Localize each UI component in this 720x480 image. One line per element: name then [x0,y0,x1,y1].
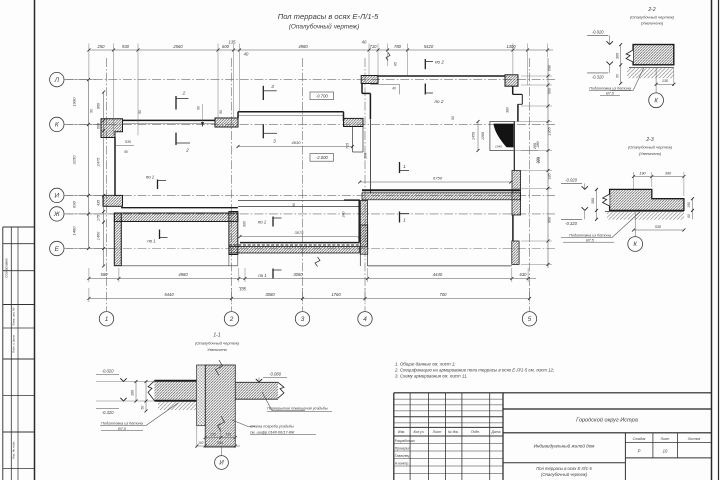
svg-text:600: 600 [97,122,101,129]
wall pier on axis K hatched [215,118,238,127]
elevation -0.320 [587,72,608,74]
svg-text:190: 190 [639,171,646,175]
svg-text:300: 300 [591,198,595,204]
sheet frame right border [711,0,713,480]
svg-text:360: 360 [665,171,672,175]
svg-text:2: 2 [185,148,189,154]
svg-text:Н.контр.: Н.контр. [395,461,409,465]
svg-text:1280: 1280 [481,132,485,140]
sunken room inner edge bottom [240,242,359,244]
svg-text:60: 60 [141,406,145,410]
svg-text:Городской округ Истра: Городской округ Истра [576,417,638,424]
svg-text:4630: 4630 [292,140,302,145]
svg-text:В7,5: В7,5 [586,238,595,242]
svg-text:К: К [654,98,658,104]
svg-text:Разработал: Разработал [395,439,415,443]
svg-text:280: 280 [533,143,537,150]
boxed elevation -0.700 [310,92,334,100]
svg-text:(Опалубочный чертеж): (Опалубочный чертеж) [541,472,588,477]
svg-text:5: 5 [528,316,532,323]
flag po1 left lower [159,230,161,240]
svg-text:Перекрытие помещения усадьбы: Перекрытие помещения усадьбы [267,406,328,410]
lower-left room left wall band hatched [114,213,121,266]
small step dims K/1 [115,145,134,147]
leader podgotovka 2-2 [610,68,644,91]
svg-text:340: 340 [217,441,223,445]
svg-text:100: 100 [198,441,204,445]
svg-text:Подп.: Подп. [471,430,480,434]
svg-text:4980: 4980 [298,44,308,49]
svg-text:по 2: по 2 [435,99,444,104]
svg-text:240: 240 [342,212,346,219]
flag po2 lower [424,84,426,95]
svg-text:3080: 3080 [265,292,275,297]
right room: top wall on axis L [378,75,505,77]
svg-text:600: 600 [222,44,230,49]
svg-text:3075: 3075 [295,230,305,235]
raised wall edge above axis K [238,111,344,113]
svg-text:3: 3 [271,84,274,90]
leader perekrytie [262,392,305,411]
bottom dim chain 1 [89,278,536,280]
svg-text:780: 780 [394,44,402,49]
sunken room inner edge right [358,200,360,243]
svg-text:630: 630 [520,272,528,277]
axis circle Ж [50,207,64,221]
svg-text:-0.320: -0.320 [592,75,605,80]
lower-left room top wall band hatched (axis Zh) [114,213,237,222]
wall pier axis I/1 hatched [103,195,123,206]
interior dim 4630 [238,146,353,148]
axis circle Л [50,72,64,86]
grid axis lines vertical [106,58,108,311]
grid axis lines horizontal [65,79,556,81]
dim 130 [656,83,674,85]
svg-text:Стена погреба усадьбы: Стена погреба усадьбы [250,425,294,429]
vert dim 2-2 [620,45,622,84]
svg-text:90: 90 [90,109,94,113]
svg-text:Кол.уч.: Кол.уч. [413,430,424,434]
axis circle 4 [358,312,372,326]
svg-text:по 1: по 1 [147,239,156,244]
leader stena pogreba [232,420,255,427]
svg-text:175: 175 [97,214,101,221]
section flag 2 lower [175,133,177,145]
svg-text:580: 580 [101,272,109,277]
svg-text:Стадия: Стадия [633,437,646,441]
axis circle И [50,188,64,202]
svg-text:60: 60 [687,214,691,218]
svg-text:Инв. № подл.: Инв. № подл. [12,441,16,459]
top dim chain [89,49,553,51]
elevation -0.080 1-1 [263,377,287,379]
svg-text:И: И [55,193,60,200]
svg-text:Листов: Листов [687,437,701,441]
svg-text:(Опалубочный чертеж): (Опалубочный чертеж) [289,23,359,31]
svg-text:2. Спецификацию на армировани: 2. Спецификацию на армирование пола терр… [394,368,555,373]
svg-text:250: 250 [97,44,106,49]
section flag 2 upper [175,96,177,110]
opening with monolith section mark [490,122,514,151]
svg-text:-0.080: -0.080 [269,371,282,376]
left wall on axis 1 [114,138,116,196]
svg-text:2-2: 2-2 [647,7,655,13]
svg-text:600: 600 [548,87,552,94]
right wall bottom pier hatched [512,241,519,264]
svg-text:690: 690 [548,64,552,71]
svg-text:по 1: по 1 [146,175,155,180]
svg-text:220: 220 [537,157,541,164]
svg-text:40: 40 [362,40,367,45]
svg-text:380: 380 [364,153,368,159]
elevation -0.320 1-1 [96,408,119,410]
svg-text:85: 85 [394,62,398,66]
bottom dim chain 2 [89,298,530,300]
wall band on axis 4 hatched [360,201,367,247]
bottom thin edge of right room [368,265,512,267]
right room left wall with notch [361,83,363,94]
svg-text:В7,5: В7,5 [606,91,615,95]
break zigzag 2-3 [603,194,610,206]
left slab thick borders hatched [155,381,197,401]
vert dims 2-3 left [596,189,598,219]
svg-text:Лист: Лист [660,437,670,441]
svg-text:135: 135 [210,432,216,436]
svg-text:3150: 3150 [72,155,77,165]
svg-text:-0.020: -0.020 [565,177,578,182]
svg-text:90: 90 [138,110,142,114]
svg-text:Пол террасы в осях Е-Л/1-5: Пол террасы в осях Е-Л/1-5 [278,12,379,21]
bottom dims 1-1 [205,437,235,439]
axis circle 3 [295,312,309,326]
svg-text:960: 960 [548,216,552,223]
svg-text:300: 300 [131,390,135,396]
svg-text:по 2: по 2 [435,60,444,65]
svg-text:по 1: по 1 [258,273,267,278]
elevation -0.020 1-1 [96,374,119,376]
svg-text:40: 40 [244,52,249,57]
axis circle 2 [224,312,238,326]
svg-text:Изм.: Изм. [398,430,405,434]
svg-text:6750: 6750 [433,176,443,181]
svg-text:Л: Л [54,77,60,84]
right dim chain [547,58,549,268]
hatched slab band along axis I right part [362,193,521,200]
interior dim 3075 [240,236,360,238]
elevation -0.020 [587,34,608,36]
detail circle K 2-3 [634,212,636,237]
svg-text:-0.700: -0.700 [316,94,329,99]
svg-text:105: 105 [239,288,246,292]
wall corner block axis K/1 hatched [101,119,123,138]
svg-text:-0.020: -0.020 [102,368,115,373]
opening dims [477,122,479,151]
title block [394,392,711,394]
svg-text:-0.020: -0.020 [592,29,605,34]
flag 1 lower right [399,212,401,223]
svg-text:Лист: Лист [432,430,442,434]
flag po1 middle [272,217,274,227]
svg-text:Подготовка из бетона: Подготовка из бетона [101,421,143,425]
svg-text:2-3: 2-3 [645,137,653,143]
interior dim 6750 [360,181,511,183]
svg-text:4980: 4980 [178,272,188,277]
boxed elevation -2.000 [310,154,334,162]
svg-text:435: 435 [97,199,101,206]
svg-text:-0.320: -0.320 [102,410,115,415]
svg-text:1: 1 [105,316,109,323]
floor edge along axis I [121,207,238,209]
break top of wall [197,364,236,366]
lower-left room bottom thin edge [114,265,238,267]
right room left wall lower part hatched [360,225,367,254]
svg-text:830: 830 [72,200,77,207]
svg-text:Р: Р [638,449,641,454]
svg-text:1300: 1300 [506,44,516,49]
svg-text:530: 530 [655,225,662,229]
right wall lower segment [512,215,514,241]
svg-text:3. Схему армирования см. лист: 3. Схему армирования см. лист 11. [395,374,468,379]
svg-text:960: 960 [97,102,101,109]
elevation -0.320 2-3 [561,218,582,220]
svg-text:Взам. инв. №: Взам. инв. № [12,307,16,326]
left dim chain outer [88,80,90,249]
svg-text:5440: 5440 [164,292,174,297]
svg-text:1365: 1365 [548,126,552,135]
ground hatch 2-3 [607,212,684,220]
svg-text:Е: Е [55,246,60,253]
svg-text:1045: 1045 [495,145,502,149]
svg-text:3080: 3080 [293,272,303,277]
svg-text:50: 50 [451,116,455,120]
vert dims 2-3 right [692,199,694,220]
svg-text:И: И [219,461,224,467]
svg-text:Подготовка из бетона: Подготовка из бетона [569,233,611,237]
break zigzag left [626,50,633,62]
flag po1 bottom [272,269,274,279]
svg-text:135: 135 [225,432,231,436]
svg-text:380: 380 [506,107,510,113]
svg-text:1760: 1760 [331,292,341,297]
svg-text:90: 90 [292,203,296,207]
svg-text:2: 2 [182,91,186,97]
wall insulation strip crosshatch [197,365,206,426]
axis circle Е [50,241,64,255]
svg-text:2560: 2560 [172,44,183,49]
svg-text:Увеличено: Увеличено [207,347,228,352]
svg-text:Согласовано: Согласовано [5,258,9,278]
svg-text:10: 10 [663,449,668,454]
section flag 3 lower [262,124,264,138]
top dims 2-3 [634,176,684,178]
axis-4 wall thin outline below [359,247,361,266]
right slab break [278,382,284,398]
svg-text:Дата: Дата [491,430,501,434]
right room right wall upper step [512,86,514,94]
svg-text:1: 1 [403,218,406,224]
svg-text:(Опалубочный чертеж): (Опалубочный чертеж) [628,145,673,150]
detail 2-3 stepped slab hatched [610,189,684,210]
underslab line [629,67,674,69]
svg-text:90: 90 [124,150,128,154]
svg-text:Подп. и дата: Подп. и дата [12,335,16,353]
right wall pier hatched [512,171,521,216]
svg-text:530: 530 [125,140,131,144]
svg-text:(Увеличено): (Увеличено) [641,21,664,26]
left dim chain inner [103,92,105,266]
right slab (cellar ceiling) hatched [235,382,278,399]
svg-text:4440: 4440 [433,272,443,277]
svg-text:1: 1 [403,164,406,170]
title block right part [503,408,711,410]
elevation -0.020 2-3 [561,182,582,184]
svg-text:В7,5: В7,5 [118,427,127,431]
svg-text:90: 90 [197,106,201,110]
svg-text:(Увеличено): (Увеличено) [639,151,662,156]
svg-text:1-1: 1-1 [213,333,220,339]
svg-text:Индивидуальный жилой дом: Индивидуальный жилой дом [534,443,596,449]
wall core hatched [205,365,235,447]
svg-text:№ док.: № док. [448,430,459,434]
flag po2 upper [424,59,426,69]
ground hatch under left slab [158,402,197,411]
svg-text:185: 185 [548,172,552,179]
svg-text:1450: 1450 [472,132,476,140]
svg-text:715: 715 [346,143,350,149]
vert dims 1-1 [135,382,137,402]
svg-text:Главспец.: Главспец. [395,454,411,458]
svg-text:Подготовка из бетона: Подготовка из бетона [589,86,631,90]
svg-text:Пол террасы в осях Е-Л/1-5: Пол террасы в осях Е-Л/1-5 [536,466,592,471]
bottom dim 530 2-3 [634,229,684,231]
leader podgotovka 1-1 [100,403,178,426]
svg-text:90: 90 [219,110,223,114]
svg-text:1990: 1990 [72,97,77,107]
ground hatch 2-2 [627,68,674,78]
svg-text:130: 130 [662,79,669,83]
axis circle 5 [522,312,536,326]
svg-text:К: К [633,242,637,248]
svg-text:(Опалубочный чертеж): (Опалубочный чертеж) [195,341,240,346]
svg-text:680: 680 [243,221,247,227]
left slab break [148,381,155,401]
svg-text:(Опалубочный чертеж): (Опалубочный чертеж) [630,15,675,20]
interior slab step edge in right room [362,189,520,191]
svg-text:700: 700 [440,292,448,297]
svg-text:5420: 5420 [424,44,434,49]
underslab line 2-3 [605,211,684,213]
corner block L/5 hatched [505,75,518,86]
svg-text:-2.000: -2.000 [316,155,329,160]
detail 2-2 slab hatched [633,45,674,65]
svg-text:300: 300 [615,52,619,59]
break mark in sunken room [315,257,320,267]
svg-text:930: 930 [122,44,130,49]
svg-text:Ж: Ж [53,211,61,218]
svg-text:50: 50 [615,74,619,78]
axis circle К [50,117,64,131]
svg-text:-0.320: -0.320 [565,221,578,226]
wall K top edge left segment [123,119,216,121]
svg-text:1460: 1460 [97,231,101,240]
svg-text:2475: 2475 [97,157,101,167]
axis circle 1 [99,312,113,326]
svg-text:710: 710 [370,44,378,49]
detail circle K [655,68,657,93]
leader podgotovka 2-3 [561,212,640,238]
svg-text:190: 190 [687,202,691,208]
wall band on axis E hatched [229,246,359,253]
svg-text:см. шифр 0148-06/17-КЖ: см. шифр 0148-06/17-КЖ [250,430,295,434]
detail circle I 1-1 [221,446,223,456]
svg-text:40: 40 [392,87,396,91]
svg-text:135: 135 [229,40,237,45]
svg-text:по 1: по 1 [258,220,267,225]
svg-text:1. Общие данные см. лист 1;: 1. Общие данные см. лист 1; [395,362,456,367]
flag po1 left [157,180,159,190]
svg-text:4: 4 [363,316,367,323]
svg-text:1480: 1480 [72,226,77,236]
lower-left room right wall band hatched [229,212,238,255]
svg-text:3: 3 [301,316,305,323]
svg-text:Проверил: Проверил [395,446,411,450]
step joint between axis-4 wall and K wall [352,127,354,153]
left margin strip [2,227,4,480]
svg-text:2: 2 [229,316,234,323]
corner block L/left hatched [361,76,378,84]
flag 1 upper right [399,162,401,173]
section flag 3 upper [262,86,264,100]
sheet frame left border [34,0,36,480]
svg-text:3: 3 [273,139,276,145]
wall pier axis K/4 hatched [344,118,364,126]
